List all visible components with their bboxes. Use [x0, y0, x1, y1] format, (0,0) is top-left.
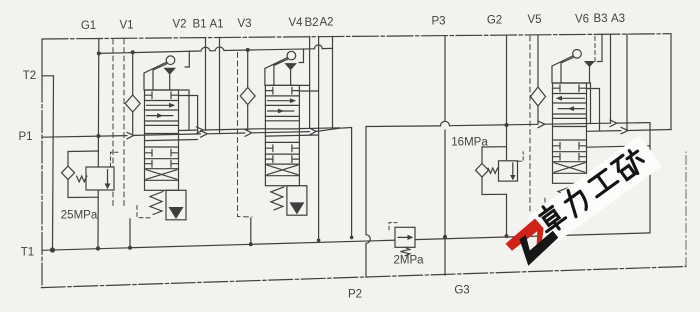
- valve V3 body outline: [265, 85, 299, 185]
- svg-text:V4: V4: [288, 17, 303, 29]
- wire valve2 right port line 1: [265, 36, 309, 128]
- svg-text:V6: V6: [575, 14, 589, 26]
- section boundary dash C valve2: [238, 53, 253, 218]
- wire lower rail chevron: [621, 127, 628, 134]
- valve V1 lever posts: [144, 70, 153, 90]
- relief 25MPa internal arrow: [107, 170, 109, 185]
- valve V3 closed ports band1: [265, 87, 299, 94]
- wire B2 vertical: [318, 36, 320, 240]
- wire valve3 right port line 2: [587, 89, 600, 131]
- wire valve1 return vertical: [129, 219, 131, 248]
- wire V5 feed vertical: [537, 36, 539, 88]
- relief 16MPa check diamond: [476, 164, 489, 178]
- svg-text:G1: G1: [81, 20, 96, 32]
- relief 25MPa enclosure: [68, 151, 99, 198]
- wire G2 drain to T1: [506, 194, 508, 236]
- wire T2 vertical: [53, 76, 54, 250]
- valve V1 pilot box: [166, 190, 186, 220]
- valve V3 mid passage line: [265, 120, 299, 122]
- wire G1 pilot bus: [99, 48, 333, 53]
- node carryover-T1 junction: [350, 236, 354, 240]
- svg-text:V2: V2: [172, 19, 186, 31]
- svg-text:B2: B2: [304, 17, 318, 29]
- watermark white band: [526, 135, 662, 248]
- node G1-bus junction: [97, 51, 101, 55]
- wire lower rail valve3 right: [587, 130, 672, 132]
- wire P1 carryover down to T1: [351, 128, 353, 238]
- valve3 spring pilot dash: [545, 198, 556, 213]
- valve V1 crossed arrows band: [146, 170, 177, 180]
- wire T2 stub: [42, 75, 54, 77]
- valve V3 detent stem: [290, 70, 292, 85]
- relief 2MPa spring: [400, 247, 409, 256]
- valve V1 lever knob: [166, 56, 175, 65]
- node G2-T1 junction: [505, 234, 509, 238]
- valve V1 pilot box triangle: [169, 207, 184, 219]
- wire valve2 return vertical: [250, 218, 252, 244]
- wire valve1 right port line 1: [145, 90, 190, 130]
- wire bus hop over B1 line: [201, 47, 210, 51]
- valve V1 closed ports band6: [145, 160, 179, 167]
- valve V3 closed ports band6: [265, 156, 299, 163]
- section boundary dash B: [123, 39, 125, 206]
- valve V3 pilot box triangle: [289, 202, 304, 214]
- valve V3 band dividers: [265, 96, 299, 176]
- valve V1 check diamond: [125, 95, 140, 112]
- valve V1 detent triangle: [164, 68, 177, 75]
- relief valve 2MPa group: [389, 223, 415, 256]
- wire valve3 return vertical: [557, 214, 559, 236]
- valve V1 pilot bracket: [185, 51, 189, 67]
- svg-text:G3: G3: [454, 285, 469, 297]
- relief 2MPa internal arrow: [398, 236, 409, 238]
- wire T1 bus: [42, 233, 650, 250]
- valve V3 return spring: [271, 187, 284, 210]
- section boundary dash D middle: [529, 36, 531, 213]
- watermark char li: [561, 185, 591, 217]
- wire rail chevron at 200: [201, 131, 208, 138]
- svg-text:G2: G2: [487, 15, 502, 27]
- node T2-T1 junction: [50, 247, 55, 252]
- wire P2 hop over T1: [366, 235, 370, 244]
- wire upper rail chevron: [197, 127, 204, 133]
- valve1 spring pilot dash: [137, 206, 152, 219]
- svg-text:P3: P3: [431, 16, 445, 28]
- wire rail chevron valve1 inlet: [127, 132, 134, 138]
- wire A2 vertical: [332, 36, 334, 127]
- node G1-P1 junction: [96, 134, 100, 138]
- boundary frame top: [42, 34, 671, 39]
- relief 16MPa pilot dash: [518, 152, 523, 161]
- relief 25MPa main box: [86, 167, 114, 190]
- valve V3V4 section group: [240, 49, 307, 215]
- svg-text:T1: T1: [21, 247, 34, 259]
- wire rail chevron at 309: [310, 128, 317, 135]
- svg-text:25MPa: 25MPa: [61, 210, 98, 222]
- valve V3 pilot box: [287, 186, 307, 216]
- svg-text:A1: A1: [209, 19, 223, 31]
- wire rail hop over P3 line: [440, 121, 449, 126]
- svg-text:16MPa: 16MPa: [451, 137, 488, 149]
- boundary frame left: [41, 39, 43, 80]
- valve V5 arrow band3: [558, 108, 585, 110]
- valve3 linkage dash: [594, 37, 596, 63]
- wire carryover upper rail valve2 right: [299, 127, 340, 130]
- valve V3 pilot bracket: [299, 49, 304, 63]
- valve V5 closed ports band1: [553, 85, 587, 92]
- wire rail chevron valve2 inlet: [245, 130, 252, 137]
- wire A3 vertical: [626, 34, 628, 130]
- valve V3 closed ports band5: [265, 145, 299, 152]
- wire rail chevron at 610: [610, 120, 617, 127]
- valve V3 detent triangle: [284, 63, 297, 70]
- valve V5 return spring: [558, 187, 571, 210]
- relief 25MPa spring W: [77, 176, 87, 182]
- wire valve3 right tank line: [587, 146, 651, 147]
- valve V1 check feed line: [132, 52, 134, 133]
- svg-text:V1: V1: [119, 20, 133, 32]
- valve V5 body outline: [553, 83, 587, 183]
- valve V3 arrow band2: [267, 100, 294, 102]
- svg-text:A3: A3: [611, 13, 625, 25]
- node G1-T1 junction: [96, 246, 100, 250]
- valve V3 lever arm: [265, 58, 288, 69]
- valve V1 lever arm: [144, 62, 167, 73]
- node G3-T1 junction: [443, 235, 447, 239]
- relief 16MPa internal arrow: [512, 163, 514, 176]
- wire P2 supply rail: [366, 123, 650, 127]
- relief 25MPa check diamond: [62, 166, 75, 180]
- valve V1V2 section group: [125, 51, 189, 220]
- valve V1 mid passage line: [145, 124, 179, 126]
- valve V5 pilot box triangle: [577, 202, 592, 214]
- valve V5 detent triangle: [584, 61, 595, 67]
- wire valve2 inner tank passage: [265, 135, 318, 136]
- valve V1 body outline: [145, 90, 179, 190]
- valve V1 return spring: [150, 192, 163, 215]
- watermark char kuang: [611, 147, 648, 183]
- boundary frame right: [685, 152, 687, 267]
- svg-text:P1: P1: [18, 131, 32, 143]
- svg-text:A2: A2: [319, 17, 333, 29]
- relief 2MPa pilot dash: [389, 223, 397, 230]
- valve V1 closed ports band5: [145, 149, 179, 156]
- wire carryover upper rail valve1-valve2: [179, 129, 266, 131]
- relief 16MPa enclosure: [482, 147, 507, 195]
- valve V5 lever posts: [552, 63, 561, 83]
- valve V3 lever knob: [287, 51, 296, 60]
- node B2-T1 junction: [317, 239, 321, 243]
- svg-text:B3: B3: [593, 13, 607, 25]
- wire valve3 check to rail: [537, 106, 539, 124]
- valve V3 check diamond: [240, 88, 255, 105]
- wire B3 vertical: [610, 34, 612, 123]
- valve V5 pilot box: [574, 185, 593, 214]
- svg-text:2MPa: 2MPa: [393, 255, 424, 267]
- valve V1 closed ports band1: [145, 92, 179, 99]
- valve3 check diamond: [531, 87, 546, 106]
- valve V5 closed ports band5: [553, 142, 587, 149]
- wire P2 vertical: [365, 127, 367, 278]
- valve V3 lever posts: [265, 65, 274, 85]
- wire right frame corner vertical: [670, 34, 672, 130]
- relief valve 16MPa group: [476, 147, 524, 195]
- valve V5 arrow band2: [558, 97, 585, 99]
- valve V5 lever arm: [552, 56, 573, 66]
- node bus-valve2 feed junction: [246, 48, 250, 52]
- valve V5 pilot bracket: [598, 34, 603, 61]
- wire valve3 right port line 1: [553, 83, 591, 124]
- node valve2-T1 junction: [249, 242, 253, 246]
- wire bus hop over B2 line: [314, 45, 322, 49]
- node bus-valve1 feed junction: [131, 50, 135, 54]
- valve V1 band dividers: [145, 101, 179, 181]
- valve V3 check feed line: [247, 50, 249, 130]
- relief 2MPa main box: [395, 227, 415, 247]
- wire P1 main rail: [42, 128, 352, 138]
- wire P3-G3 through line: [444, 36, 446, 275]
- node valve1-T1 junction: [128, 246, 132, 250]
- valve V1 arrow band2: [147, 104, 174, 106]
- wire valve1 inner tank passage: [145, 140, 198, 141]
- logo red Z stroke: [506, 219, 544, 251]
- wire valve2 right port stub: [299, 90, 318, 92]
- valve V3 arrow band3: [267, 110, 294, 112]
- valve V1 arrow band3: [147, 115, 174, 117]
- wire T1-return right vertical: [649, 123, 651, 233]
- logo black Z stroke: [520, 231, 559, 266]
- watermark char zhuo: [534, 200, 569, 236]
- section boundary dash A: [112, 39, 114, 206]
- wire G1 vertical: [97, 39, 100, 249]
- valve V3 crossed arrows band: [267, 165, 298, 175]
- valve V5 mid passage line: [553, 117, 587, 119]
- svg-text:V5: V5: [527, 14, 541, 26]
- valve V5V6 section group: [552, 34, 602, 214]
- valve V5 lever knob: [573, 50, 582, 59]
- watermark group: [506, 135, 662, 265]
- svg-text:B1: B1: [192, 19, 206, 31]
- svg-text:P2: P2: [348, 289, 362, 301]
- valve V5 closed ports band6: [553, 153, 587, 160]
- relief valve 25MPa group: [62, 151, 118, 198]
- relief 25MPa pilot dash: [111, 152, 118, 166]
- svg-text:T2: T2: [23, 70, 36, 82]
- relief 16MPa main box: [499, 161, 518, 181]
- valve V1 detent stem: [169, 75, 171, 90]
- node rail-G2 junction: [505, 123, 509, 127]
- wire G2 vertical: [506, 36, 508, 161]
- wire bus hop over A1 line: [215, 47, 224, 51]
- wire rail chevron valve3 inlet: [538, 121, 545, 128]
- svg-text:V3: V3: [237, 18, 251, 30]
- wire valve1 right port line 2: [179, 96, 198, 134]
- relief 16MPa spring W: [488, 168, 498, 173]
- wire A1 vertical: [219, 37, 221, 133]
- boundary frame bottom: [41, 267, 686, 288]
- valve V5 detent stem: [589, 67, 591, 83]
- wire B1 vertical: [205, 38, 207, 131]
- valve V5 band dividers: [553, 94, 587, 174]
- watermark char gong: [587, 168, 618, 197]
- valve V5 crossed arrows band: [554, 163, 585, 173]
